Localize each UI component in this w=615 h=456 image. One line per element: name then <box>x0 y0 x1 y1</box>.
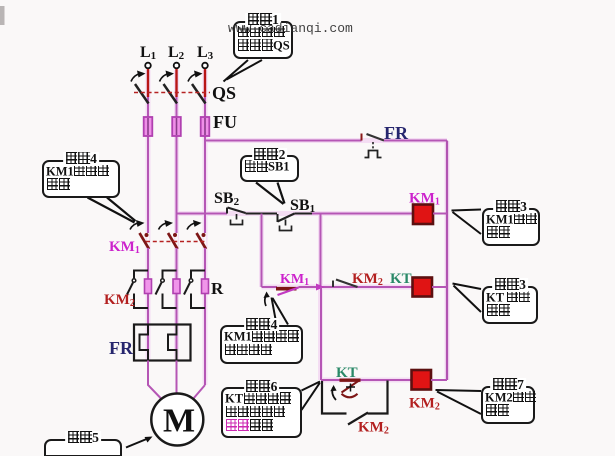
callout step6 <box>221 387 302 438</box>
motor M <box>151 394 203 446</box>
callout step3a <box>482 208 540 246</box>
wire coil KM1 to bus <box>433 213 447 215</box>
svg-text:QS: QS <box>212 83 236 103</box>
node L3 terminal <box>202 63 208 69</box>
pointer step3a to KM1 coil <box>452 210 482 235</box>
svg-text:FR: FR <box>109 338 134 358</box>
corner mark <box>0 6 5 25</box>
KM1 linkage dashed line <box>146 241 207 243</box>
thermal contact FR NC <box>361 134 363 141</box>
wire control top <box>205 140 362 142</box>
pointer step5 to motor <box>126 438 149 448</box>
svg-text:KM1: KM1 <box>109 239 140 256</box>
contactor KM1 main contact 2 <box>175 233 177 248</box>
switch QS pole 1 blade <box>135 84 149 104</box>
thermal relay FR box <box>134 325 191 361</box>
pointer step4b to KM1 aux <box>272 298 289 325</box>
svg-text:L3: L3 <box>197 44 214 62</box>
svg-text:R: R <box>211 279 224 298</box>
switch QS pole 1 red emphasis <box>147 69 149 97</box>
contact KM2 latch blade <box>348 413 368 425</box>
switch QS pole 3 red emphasis <box>204 69 206 97</box>
wire row1 to coil <box>295 213 313 215</box>
svg-text:KM2: KM2 <box>409 396 440 413</box>
switch QS pole 3 blade <box>192 84 206 104</box>
callout step2 <box>240 155 299 182</box>
contactor KM1 main contact 3 <box>204 233 206 248</box>
wire halos <box>148 70 447 385</box>
contact KM1 aux NO <box>276 287 297 291</box>
callout step7 <box>481 386 535 424</box>
wire coil KT to bus <box>432 286 447 288</box>
callout step5 <box>44 439 122 456</box>
contactor KM1 main contact 1 <box>147 233 149 248</box>
switch QS pole 1 motion arrow <box>131 74 141 82</box>
FR heater element 1 <box>140 325 149 361</box>
wire row3 <box>321 379 412 381</box>
wire row2 left <box>262 286 278 288</box>
wire L2 vertical power line <box>176 68 178 233</box>
contactor KM2 bypass contact 3 <box>191 271 205 279</box>
pointer step1 to QS <box>224 60 263 82</box>
switch QS pole 2 red emphasis <box>175 69 177 97</box>
pointer step7 to KM2 coil <box>436 390 482 414</box>
wire SB1 out down to row2 junction <box>320 214 322 288</box>
wire L1 vertical power line <box>147 68 149 233</box>
switch QS pole 2 blade <box>164 84 178 104</box>
svg-text:KM2: KM2 <box>358 420 389 437</box>
wire KM2 latch branch <box>322 381 347 414</box>
resistor R 3 <box>202 279 209 294</box>
coil KM1 <box>413 205 433 225</box>
FR heater element 2 <box>168 325 177 361</box>
svg-text:KM2: KM2 <box>352 271 383 288</box>
wire control top right <box>384 140 447 142</box>
svg-text:KT: KT <box>390 271 412 287</box>
wire power lines mid <box>147 248 149 361</box>
wire row1 left from L2 <box>177 213 228 215</box>
button SB1 NO start <box>277 214 279 222</box>
svg-text:L2: L2 <box>168 44 185 62</box>
wire coil KM2 to bus <box>431 379 447 381</box>
contact KM2 NO row2 <box>332 281 334 288</box>
watermark <box>228 21 353 36</box>
svg-text:KM1: KM1 <box>280 272 309 288</box>
callout step4b <box>220 325 303 364</box>
pointer step4a to KM1 main <box>88 198 136 223</box>
node L2 terminal <box>174 63 180 69</box>
fuse FU 1 <box>144 117 153 136</box>
svg-text:L1: L1 <box>140 44 156 62</box>
callout step1 <box>233 21 293 59</box>
svg-text:FU: FU <box>213 112 237 132</box>
svg-text:SB1: SB1 <box>290 197 315 215</box>
wire branch down to row2 <box>261 214 263 288</box>
wire between buttons <box>246 213 278 215</box>
pointer step3b to KT coil <box>453 284 482 313</box>
svg-text:M: M <box>163 403 195 440</box>
wire motor leads <box>148 361 162 400</box>
coil KT <box>413 278 433 297</box>
resistor R 2 <box>173 279 180 294</box>
svg-text:KM1: KM1 <box>409 191 440 208</box>
resistor R 1 <box>145 279 152 294</box>
svg-text:SB2: SB2 <box>214 190 240 208</box>
pointer step2 to SB1 <box>256 183 285 205</box>
wire L3 vertical power line <box>204 68 206 233</box>
contactor KM2 bypass contact 1 <box>134 271 148 279</box>
KT contact motion arrow <box>332 388 336 401</box>
wire junction down to row3 <box>320 287 322 380</box>
node L1 terminal <box>145 63 151 69</box>
KM1 aux motion arrow <box>265 294 268 306</box>
wire right bus vertical <box>446 141 448 381</box>
contactor KM2 bypass contact 2 <box>163 271 177 279</box>
button SB2 NC stop <box>226 208 228 214</box>
contact KT delayed NO <box>340 379 361 382</box>
callout step4a <box>42 160 120 198</box>
fuse FU 3 <box>201 117 210 136</box>
switch QS pole 2 motion arrow <box>160 74 170 82</box>
switch QS pole 3 motion arrow <box>188 74 198 82</box>
fuse inner wires <box>147 118 149 135</box>
coil KM2 <box>412 370 432 390</box>
svg-text:KT: KT <box>336 365 358 381</box>
QS linkage dashed line <box>134 92 210 94</box>
svg-text:KM2: KM2 <box>104 292 135 309</box>
pointer step6 to KT contact <box>302 382 321 411</box>
node junction row2 <box>316 284 325 291</box>
callout step3b <box>482 286 538 324</box>
fuse FU 2 <box>172 117 181 136</box>
